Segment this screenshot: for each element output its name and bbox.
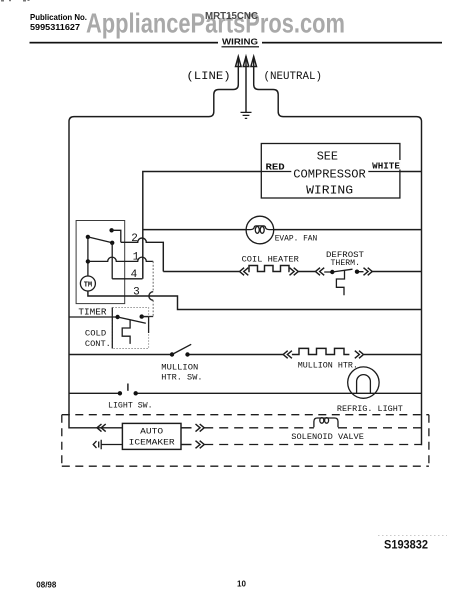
wire: dashed solenoid to right edge: [338, 427, 422, 429]
WIRING title: [218, 36, 262, 47]
wire: white compressor to right edge: [400, 171, 422, 173]
svg-text:CONT.: CONT.: [85, 339, 111, 349]
timer box T1: [76, 221, 125, 304]
wire: neutral prong lead + outer box right edge: [254, 57, 422, 445]
connector chevrons << for defrost therm: [316, 268, 325, 276]
connector chevrons >> for coil heater: [290, 268, 299, 276]
connector chevrons << for mullion heater: [283, 351, 292, 359]
cold control box: [112, 308, 148, 349]
wire: dashed to solenoid: [204, 427, 314, 429]
svg-text:ICEMAKER: ICEMAKER: [129, 438, 175, 447]
light switch S4: [118, 384, 138, 396]
header rule: [30, 42, 443, 44]
defrost thermostat S1: [324, 269, 363, 295]
svg-text:WIRING: WIRING: [222, 36, 258, 46]
defrost therm capillary: [336, 270, 344, 295]
svg-text:MULLION: MULLION: [161, 363, 198, 373]
connector chevrons >> icemaker lower: [196, 441, 205, 449]
wire: line prong lead + outer box left edge: [69, 57, 238, 428]
resistor: mullion heater element R2: [292, 348, 350, 354]
wire: red feed to compressor: [143, 172, 261, 279]
faint dotted scan line above stamp: [378, 535, 447, 537]
svg-text:WIRING: WIRING: [306, 184, 353, 198]
svg-text:(LINE): (LINE): [186, 71, 230, 83]
connector chevrons >> icemaker upper: [196, 424, 205, 432]
svg-text:1: 1: [133, 252, 140, 264]
wire: line to cold control from left bus: [69, 316, 118, 318]
svg-text:AUTO: AUTO: [140, 427, 163, 436]
svg-text:RED: RED: [266, 162, 286, 172]
connector chevrons >> for mullion heater: [355, 351, 364, 359]
wire: terminal 4 line: [112, 278, 142, 280]
wire: timer internal contact vertical to terminal 4 line: [111, 243, 113, 279]
svg-text:3: 3: [133, 287, 140, 299]
label SEE COMPRESSOR WIRING: [291, 146, 368, 198]
ground prong wire: [245, 57, 247, 112]
label RED: [265, 161, 287, 172]
timer contact node top: [109, 228, 120, 242]
plug prong arrowheads: [236, 57, 257, 67]
icemaker dashed enclosure: [62, 415, 429, 467]
svg-text:SEE: SEE: [317, 150, 338, 164]
node: terminal 1 tap: [86, 259, 90, 263]
wire: terminal 2 lead with hop over main vertical: [121, 238, 164, 272]
wire: terminal 1 lead with hops: [88, 257, 153, 261]
wire: line 3 from TM: [88, 291, 422, 310]
auto icemaker box A1: [122, 423, 181, 449]
timer pole node + switch arm: [86, 235, 115, 245]
svg-text:MULLION HTR.: MULLION HTR.: [298, 361, 358, 371]
wire: dashed lower to right edge: [204, 444, 421, 446]
svg-text:(NEUTRAL): (NEUTRAL): [264, 71, 323, 83]
wire hop: terminal 1 vertical over line 3: [149, 292, 153, 301]
resistor: coil heater element R1: [248, 266, 289, 272]
publication number block: [30, 12, 87, 32]
header scan specks: [1, 0, 30, 2]
wire: light line: [69, 392, 422, 394]
svg-text:4: 4: [131, 269, 138, 281]
svg-text:10: 10: [237, 580, 246, 589]
svg-text:TIMER: TIMER: [78, 308, 107, 318]
solenoid valve coil L1: [314, 418, 338, 428]
connector chevrons >> for defrost therm: [364, 268, 373, 276]
svg-text:2: 2: [131, 233, 138, 245]
wire: icemaker lower output stub: [181, 444, 192, 446]
connector chevrons << icemaker feed: [97, 424, 106, 432]
cold control capillary: [122, 320, 130, 344]
timer motor TM: [80, 276, 95, 291]
connector chevrons << for coil heater: [240, 268, 249, 276]
svg-text:REFRIG. LIGHT: REFRIG. LIGHT: [337, 404, 403, 414]
svg-text:S193832: S193832: [384, 538, 428, 552]
label WHITE: [371, 160, 401, 171]
mullion heater switch S3: [170, 344, 191, 356]
refrigerator light LP1: [348, 367, 379, 398]
wire: coil heater line: [163, 271, 421, 273]
terminal labels 2 1 4 3: [131, 233, 140, 299]
svg-text:Publication No.: Publication No.: [30, 12, 87, 22]
svg-text:TM: TM: [84, 281, 92, 289]
wire: icemaker upper feed: [69, 427, 122, 429]
water fill connector: [93, 440, 122, 450]
wire: terminal 1 vertical to cold control (light): [152, 261, 154, 316]
svg-text:5995311627: 5995311627: [30, 22, 80, 32]
compressor box U1: [261, 144, 400, 199]
wire: terminal 1 vertical bottom to cold control contact: [143, 316, 153, 318]
wire: mullion line: [69, 354, 422, 356]
wire: timer pole to TM: [87, 237, 89, 276]
evap fan motor M1: [246, 216, 274, 244]
svg-text:COIL HEATER: COIL HEATER: [242, 254, 299, 264]
svg-text:COMPRESSOR: COMPRESSOR: [293, 167, 366, 181]
ground symbol: [241, 112, 252, 118]
svg-text:COLD: COLD: [85, 329, 106, 339]
svg-text:EVAP. FAN: EVAP. FAN: [275, 233, 318, 243]
wire: evap fan line: [143, 229, 422, 231]
svg-text:LIGHT SW.: LIGHT SW.: [108, 401, 153, 411]
svg-text:MRT15CNC: MRT15CNC: [205, 11, 258, 22]
cold control box left edge solid: [111, 308, 113, 349]
svg-text:WHITE: WHITE: [372, 161, 400, 171]
cold control thermostat S2: [115, 314, 148, 344]
svg-text:THERM.: THERM.: [331, 258, 361, 268]
wire: stub inside compressor box: [261, 171, 400, 173]
svg-text:HTR. SW.: HTR. SW.: [161, 373, 202, 383]
svg-text:SOLENOID VALVE: SOLENOID VALVE: [291, 432, 364, 442]
svg-text:08/98: 08/98: [36, 581, 57, 590]
wire: icemaker upper output stub: [181, 427, 192, 429]
